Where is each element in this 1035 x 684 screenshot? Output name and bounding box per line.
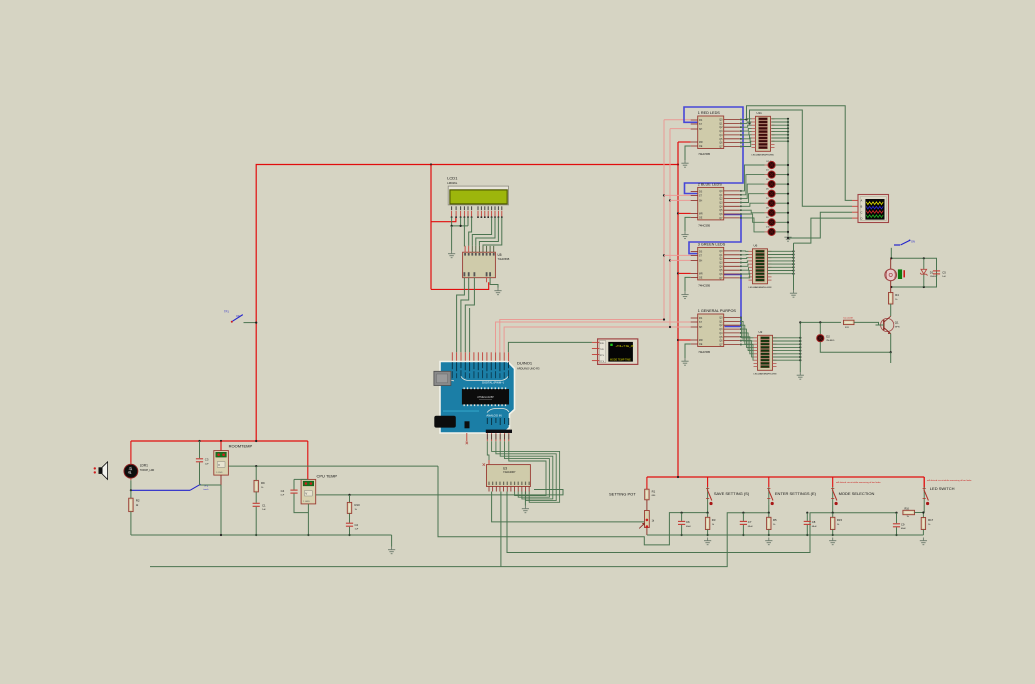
wire U11 out xyxy=(772,140,789,142)
wire U6 out xyxy=(768,254,794,256)
svg-text:TXD: TXD xyxy=(600,349,605,351)
Arduino DUINO1 top pin stubs xyxy=(452,352,508,361)
junction xyxy=(787,127,789,129)
junction xyxy=(787,118,789,120)
button ENTER SETTINGS xyxy=(767,477,774,505)
junction xyxy=(895,534,897,536)
svg-text:LDR1: LDR1 xyxy=(140,464,148,468)
LED D5 xyxy=(768,181,775,188)
wire C8 to rail xyxy=(806,525,808,535)
bargraph U2 green xyxy=(754,330,777,376)
wire LED anode stub xyxy=(765,212,769,214)
svg-text:SH: SH xyxy=(699,260,703,263)
junction xyxy=(799,359,801,361)
junction sensor rail xyxy=(255,440,257,442)
svg-text:R17: R17 xyxy=(928,518,934,522)
motor M1 xyxy=(885,258,897,287)
transistor Q1 NPN xyxy=(881,316,900,334)
junction xyxy=(677,272,679,274)
svg-text:74HC595: 74HC595 xyxy=(698,152,710,156)
junction xyxy=(792,266,794,268)
wire scope channel D xyxy=(794,218,853,243)
wire LED anode stub xyxy=(765,193,769,195)
wire U2 out xyxy=(773,359,801,361)
junction xyxy=(255,322,257,324)
ground LCD xyxy=(448,251,455,258)
svg-text:V: V xyxy=(218,463,220,467)
svg-text:R10: R10 xyxy=(355,503,361,507)
IC U9 74HC595 xyxy=(691,242,742,287)
wire U7 Q6 to U11 xyxy=(740,138,752,143)
svg-text:2N-RED: 2N-RED xyxy=(826,340,835,342)
junction xyxy=(799,343,801,345)
svg-text:OE: OE xyxy=(699,277,703,280)
LED D9 xyxy=(768,219,775,226)
ground R17 xyxy=(920,538,927,545)
wire U11 out xyxy=(772,131,789,133)
wire U2 out xyxy=(773,346,801,348)
wire U11 out xyxy=(772,134,789,136)
svg-text:ST: ST xyxy=(699,123,703,126)
oscilloscope xyxy=(852,195,889,223)
junction xyxy=(348,534,350,536)
svg-text:MR: MR xyxy=(699,273,703,276)
svg-text:D: D xyxy=(861,216,863,220)
junction xyxy=(806,534,808,536)
LED D3 xyxy=(768,161,775,168)
IC U3 74HC4067 xyxy=(487,465,531,492)
svg-text:A: A xyxy=(861,199,863,203)
ground U5 xyxy=(494,288,501,295)
svg-text:1 RED LEDS: 1 RED LEDS xyxy=(698,111,721,115)
wire LED cathode xyxy=(775,231,788,233)
wire U8 Q7 to D10 xyxy=(740,218,765,232)
ground R15 xyxy=(829,538,836,545)
wire motor to R4 xyxy=(890,287,892,293)
svg-text:LED-BARGRAPH-GRN: LED-BARGRAPH-GRN xyxy=(754,373,777,376)
capacitor C9 xyxy=(893,524,900,527)
wire node to R15 xyxy=(832,513,834,518)
svg-text:1 GENERAL PURPOS: 1 GENERAL PURPOS xyxy=(698,309,737,313)
wire ROOMTEMP VOUT xyxy=(228,465,438,467)
svg-text:74HC595: 74HC595 xyxy=(698,283,710,287)
wire U6 out xyxy=(768,273,794,275)
wire VOUT bus to save node xyxy=(438,466,708,545)
wire U9 to U6 xyxy=(740,271,749,275)
junction xyxy=(832,534,834,536)
bargraph U6 green xyxy=(749,244,772,290)
wire latch to U7 xyxy=(664,119,691,121)
junction LDR/R2 xyxy=(130,489,132,491)
IC U5 74HC595 (LCD driver) xyxy=(463,246,510,278)
svg-text:ST: ST xyxy=(699,255,703,258)
svg-text:MODE SELECTION: MODE SELECTION xyxy=(839,491,875,496)
junction R10 tap xyxy=(348,494,350,496)
junction xyxy=(787,164,789,166)
svg-text:Q1: Q1 xyxy=(895,321,899,325)
junction xyxy=(792,263,794,265)
svg-text:SETTING POT: SETTING POT xyxy=(609,491,636,496)
wire D2 to emitter node xyxy=(820,342,890,352)
wire left ground rail xyxy=(131,534,392,536)
wire 5V power loop xyxy=(256,165,678,442)
junction xyxy=(799,350,801,352)
sensor CPU TEMP LM35 xyxy=(301,479,316,504)
wire C6 to rail xyxy=(681,525,683,535)
junction scope B tap xyxy=(748,122,750,124)
pin mark U3 xyxy=(483,463,485,465)
wire 5V to U9 MR xyxy=(678,272,691,274)
svg-text:ENTER SETTINGS (E): ENTER SETTINGS (E) xyxy=(775,491,817,496)
wire to C9 xyxy=(896,513,898,524)
svg-text:1uF: 1uF xyxy=(262,509,266,511)
junction xyxy=(792,260,794,262)
wire U9 OE to ground xyxy=(685,277,691,291)
wire red LED return bus xyxy=(787,119,789,234)
junction C6 xyxy=(681,512,683,514)
wire U7 Q1 to U11 xyxy=(740,122,752,123)
wire R15 to rail xyxy=(832,530,834,536)
capacitor C3 xyxy=(196,459,203,462)
wire U5 VCC stub xyxy=(486,278,488,283)
wire LED cathode xyxy=(775,193,788,195)
svg-text:+TNL+T SE_48: +TNL+T SE_48 xyxy=(616,344,635,348)
junction PWM tap xyxy=(799,321,801,323)
Arduino DUINO1 board xyxy=(440,362,515,434)
capacitor C2 xyxy=(346,523,353,526)
wire node to R3 xyxy=(707,513,709,518)
junction xyxy=(220,534,222,536)
ground U8 xyxy=(681,231,688,238)
ground R3 xyxy=(704,538,711,545)
wire U2 out xyxy=(773,350,801,352)
junction xyxy=(768,534,770,536)
wire LED cathode xyxy=(775,183,788,185)
wire U10 to U2 xyxy=(740,321,754,341)
wire 5V vertical right trunk xyxy=(677,142,679,477)
junction 5V right trunk xyxy=(677,163,679,165)
junction rail/trunk xyxy=(677,476,679,478)
junction R5 node xyxy=(768,512,770,514)
junction xyxy=(792,257,794,259)
wire clock to U7 xyxy=(670,128,691,130)
junction xyxy=(787,221,789,223)
wire U11 out xyxy=(772,118,789,120)
wire CPU TEMP VOUT to U3 xyxy=(316,490,563,495)
switch SW master power xyxy=(224,310,243,323)
wire switch to motor rail xyxy=(890,248,892,258)
wire U6 out xyxy=(768,263,794,265)
svg-text:SAVE SETTING (S): SAVE SETTING (S) xyxy=(714,491,750,496)
wire 5V to LCD/U5 xyxy=(430,165,432,290)
wire U2 out xyxy=(773,356,801,358)
wire U5 GND xyxy=(490,278,498,288)
wire U6 out xyxy=(768,250,794,252)
junction C8 xyxy=(806,512,808,514)
speaker icon xyxy=(94,462,108,480)
svg-text:OE: OE xyxy=(699,343,703,346)
junction xyxy=(787,183,789,185)
junction xyxy=(923,257,925,259)
wire R3 to rail xyxy=(707,530,709,536)
svg-text:R9: R9 xyxy=(261,481,265,485)
wire 5V to ROOMTEMP xyxy=(220,441,222,451)
wire LED cathode xyxy=(775,212,788,214)
wire C3 bottom xyxy=(199,462,201,485)
capacitor C8 xyxy=(804,521,811,524)
wire U11 out xyxy=(772,127,789,129)
wire LED anode stub xyxy=(765,174,769,176)
wire 5V to U8 MR xyxy=(678,212,691,214)
wire C9 to rail xyxy=(896,527,898,535)
wire A5 to U3 xyxy=(509,441,546,495)
pin mark xyxy=(466,442,468,444)
svg-text:DS: DS xyxy=(699,191,703,194)
svg-text:2 BLUE LEDS: 2 BLUE LEDS xyxy=(698,182,723,186)
svg-text:OE: OE xyxy=(699,217,703,220)
wire to R10 xyxy=(349,495,351,503)
junction scope A tap xyxy=(745,118,747,120)
wire PWM to R11 xyxy=(800,321,841,323)
sensor ROOMTEMP LM35 xyxy=(214,451,229,476)
wire LED cathode xyxy=(775,164,788,166)
wire LED switch to node xyxy=(923,505,925,513)
svg-text:C3: C3 xyxy=(205,458,209,462)
junction xyxy=(307,534,309,536)
ground R5 xyxy=(765,538,772,545)
LED D10 xyxy=(768,228,775,235)
wire to C7 xyxy=(742,513,744,521)
svg-text:SH: SH xyxy=(699,326,703,329)
wire U2 out xyxy=(773,353,801,355)
wire button to node xyxy=(707,505,709,513)
junction xyxy=(923,286,925,288)
svg-text:LED-BARGRAPH-GRN: LED-BARGRAPH-GRN xyxy=(749,286,772,289)
wire U2 out xyxy=(773,343,801,345)
junction xyxy=(787,202,789,204)
svg-text:LED SWITCH: LED SWITCH xyxy=(930,486,955,491)
svg-text:LM016L: LM016L xyxy=(447,181,458,185)
LED D8 xyxy=(768,209,775,216)
wire U3 gnd xyxy=(524,492,526,506)
svg-text:CPU TEMP: CPU TEMP xyxy=(317,474,338,479)
resistor R10 xyxy=(347,502,351,513)
switch LDR test xyxy=(190,484,209,491)
wire U10 OE to ground xyxy=(685,344,691,358)
wire U2 out xyxy=(773,337,801,339)
wire C7 to rail xyxy=(742,525,744,535)
svg-text:DS: DS xyxy=(699,317,703,320)
resistor R15 xyxy=(831,517,835,529)
wire A1 to U3 xyxy=(492,441,560,502)
wire U8 Q0 to D3 xyxy=(740,165,765,191)
button MODE SELECTION xyxy=(831,477,838,505)
svg-text:MR: MR xyxy=(699,141,703,144)
diode D1 xyxy=(920,258,938,287)
junction xyxy=(663,194,665,196)
junction xyxy=(677,339,679,341)
wire U10 to U2 xyxy=(740,325,754,344)
wire LCD D4 to U5 xyxy=(472,217,491,246)
resistor R2 xyxy=(129,498,133,511)
wire latch vertical bus xyxy=(663,120,665,320)
svg-text:C2: C2 xyxy=(355,523,359,527)
junction R3 node xyxy=(707,512,709,514)
button LED SWITCH xyxy=(923,477,930,505)
wire U8 OE to ground xyxy=(685,217,691,231)
svg-text:R4: R4 xyxy=(895,293,899,297)
wire U5 SHCP to DUINO1 xyxy=(461,278,469,353)
junction xyxy=(787,124,789,126)
svg-text:DS: DS xyxy=(699,251,703,254)
wire U7 OE to ground xyxy=(685,146,691,160)
svg-text:DIGITAL (PWM~): DIGITAL (PWM~) xyxy=(482,380,504,384)
wire C4 top lead xyxy=(293,479,295,489)
wire ROOMTEMP gnd to rail xyxy=(200,485,222,535)
ground U3 xyxy=(522,506,529,513)
junction xyxy=(799,353,801,355)
wire LCD VEE xyxy=(460,217,462,226)
wire test point (blue) xyxy=(131,489,190,491)
junction xyxy=(198,440,200,442)
wire U10 to U2 xyxy=(740,337,754,354)
wire motor snubber loop xyxy=(891,258,936,287)
wire button to node xyxy=(768,505,770,513)
wire U9 to U6 xyxy=(740,264,749,266)
wire 5V pin stub xyxy=(466,433,468,442)
svg-text:U3: U3 xyxy=(503,466,507,470)
LCD LCD1 display xyxy=(448,186,508,205)
wire U9 to U6 xyxy=(740,254,749,256)
svg-text:1 GND: 1 GND xyxy=(303,501,310,503)
wire U9 to U6 xyxy=(740,261,749,263)
svg-text:RTS: RTS xyxy=(600,355,605,357)
wire U2 return bus xyxy=(799,322,801,372)
wire TX to terminal xyxy=(508,342,592,352)
svg-text:74HC595: 74HC595 xyxy=(698,223,710,227)
wire LDR to divider xyxy=(130,480,132,490)
svg-text:CTS: CTS xyxy=(600,361,605,363)
wire 5V to U10 MR xyxy=(678,339,691,341)
junction R9 tap xyxy=(255,465,257,467)
resistor R5 xyxy=(767,517,771,529)
wire LED anode stub xyxy=(765,221,769,223)
wire wiper xyxy=(644,519,646,521)
resistor R1 xyxy=(645,489,649,500)
junction C7 xyxy=(742,512,744,514)
wire C4 bottom xyxy=(294,494,308,513)
svg-text:ANALOG IN: ANALOG IN xyxy=(486,414,501,418)
ground LED bus xyxy=(784,234,791,241)
junction xyxy=(787,131,789,133)
svg-text:C7: C7 xyxy=(748,520,752,524)
wire U8 Q3 to D6 xyxy=(740,194,765,203)
svg-text:R15: R15 xyxy=(837,518,843,522)
junction xyxy=(890,286,892,288)
svg-text:68nF: 68nF xyxy=(748,526,754,528)
wire U9 to U6 xyxy=(740,257,749,260)
junction xyxy=(787,237,789,239)
wire R5 to rail xyxy=(768,530,770,536)
svg-text:TP1: TP1 xyxy=(224,310,229,314)
wire U7 Q0 to U11 xyxy=(740,118,752,121)
svg-text:fan on/off: fan on/off xyxy=(844,318,853,320)
wire A2 to U3 xyxy=(496,441,556,500)
svg-text:RXD: RXD xyxy=(600,343,605,345)
svg-text:1N4007: 1N4007 xyxy=(930,276,938,278)
svg-text:V: V xyxy=(305,492,307,496)
LED D7 xyxy=(768,200,775,207)
wire 5V sensor rail xyxy=(131,440,308,442)
junction R17 node xyxy=(922,511,924,513)
wire U7 Q4 to U11 xyxy=(740,132,752,135)
svg-text:R2: R2 xyxy=(136,499,140,503)
capacitor C4 xyxy=(290,490,297,493)
junction xyxy=(787,140,789,142)
wire button to node xyxy=(832,505,834,513)
wire LED cathode xyxy=(775,174,788,176)
svg-text:U11: U11 xyxy=(757,111,763,115)
wire rail to LED switch xyxy=(923,477,925,489)
wire U7 Q7 to U11 xyxy=(740,141,752,146)
wire long run to enter node xyxy=(150,513,769,567)
wire LED anode stub xyxy=(765,164,769,166)
wire A3 to U3 xyxy=(500,441,553,499)
svg-text:torch: torch xyxy=(204,488,210,491)
LED D6 xyxy=(768,190,775,197)
junction xyxy=(669,199,671,201)
wire R9 to C1 xyxy=(255,492,257,503)
svg-text:68nF: 68nF xyxy=(901,528,907,530)
ground left rail xyxy=(388,547,395,554)
wire LED anode stub xyxy=(765,183,769,185)
svg-text:R3: R3 xyxy=(712,518,716,522)
wire U10 to U2 xyxy=(740,341,754,357)
wire A0 to U3 xyxy=(487,441,489,460)
wire rail to R1 xyxy=(646,477,648,489)
wire scope channel A xyxy=(747,106,853,201)
junction xyxy=(799,346,801,348)
capacitor C7 xyxy=(740,521,747,524)
svg-text:DUINO1: DUINO1 xyxy=(517,361,533,366)
wire U9 to U6 xyxy=(740,250,749,252)
svg-text:ON: ON xyxy=(911,240,915,244)
wire latch to U8 xyxy=(664,194,691,196)
junction R15 node xyxy=(832,512,834,514)
wire to R2 xyxy=(130,490,132,498)
junction D2 tap xyxy=(819,321,821,323)
junction xyxy=(742,534,744,536)
wire scope channel B xyxy=(750,110,853,206)
resistor R4 xyxy=(889,293,893,305)
wire U3 to mode node xyxy=(507,492,833,553)
junction xyxy=(220,440,222,442)
wire U9 to U6 xyxy=(740,267,749,270)
svg-text:1uF: 1uF xyxy=(942,276,946,278)
wire C1 to rail xyxy=(255,507,257,535)
resistor R3 xyxy=(705,517,709,529)
wire LCD D5 to U5 xyxy=(476,217,495,246)
wire R17 to rail xyxy=(922,530,924,536)
wire 5V to CPU TEMP xyxy=(307,441,309,479)
LCD1 pins 1-14 xyxy=(451,206,503,218)
svg-text:B: B xyxy=(861,205,863,209)
wire 5V to LCD VDD xyxy=(431,217,456,221)
LED D4 xyxy=(768,171,775,178)
svg-text:U2: U2 xyxy=(759,330,763,334)
wire U7 Q2 to U11 xyxy=(740,125,752,127)
wire to D2 xyxy=(819,322,821,334)
